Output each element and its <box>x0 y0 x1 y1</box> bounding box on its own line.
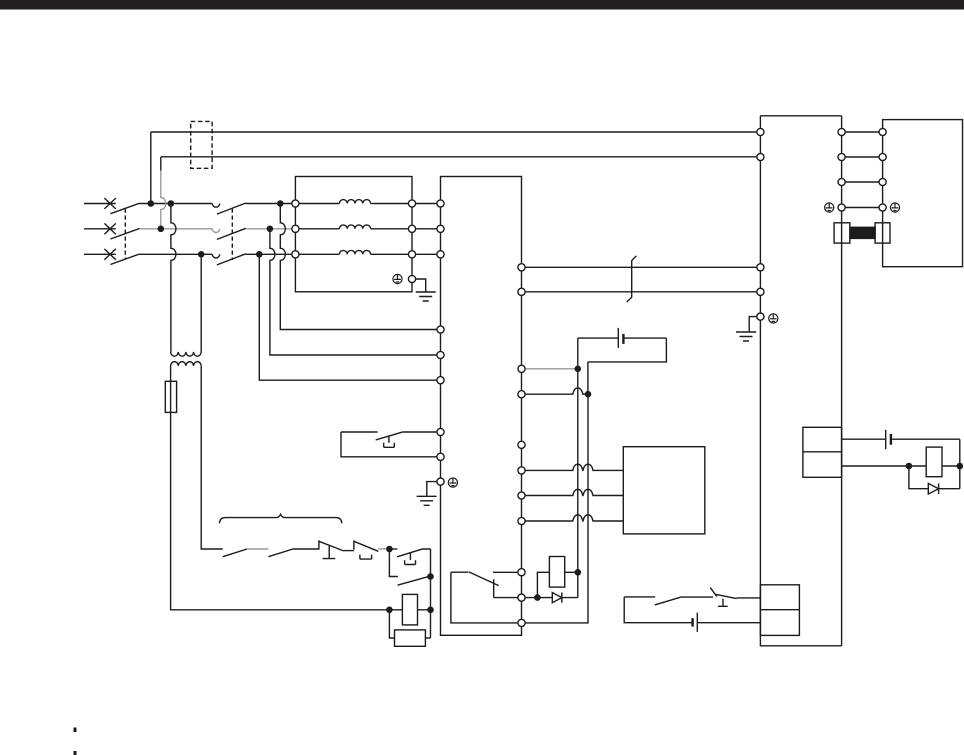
junction node phase S terminal tap <box>267 226 274 233</box>
junction node bus A <box>575 366 582 373</box>
tap wire phase T to transformer <box>200 254 202 352</box>
noise filter box <box>295 177 412 292</box>
shield clamp left <box>834 223 850 243</box>
junction node coil K2 left <box>534 594 541 601</box>
earth terminal symbol (filter) <box>393 274 402 283</box>
wire <box>293 548 319 550</box>
wire node to relay <box>430 577 432 610</box>
operation switch loop at inverter left <box>341 432 437 457</box>
interlock switch 1 <box>223 549 247 557</box>
motor cable rung 2 <box>842 156 883 158</box>
flywheel diode D1 <box>537 593 577 603</box>
terminal circles unit left <box>757 128 764 135</box>
unit earth ground <box>736 332 756 341</box>
external battery B3 <box>842 430 960 466</box>
junction node interlock chain <box>386 546 393 553</box>
wire inverter to unit line 2 <box>522 291 761 293</box>
wire to brake unit 2 (hops) <box>522 489 624 495</box>
unit ground wire <box>749 317 757 332</box>
junction node coil K3 left <box>906 463 913 470</box>
top control line 2 <box>161 156 761 158</box>
motor cable rung 3 <box>842 181 883 183</box>
tap wire phase T to terminal <box>259 254 440 380</box>
earth terminal symbol (cable right) <box>890 203 899 212</box>
bus wire down B <box>525 394 588 623</box>
page header bar <box>0 0 964 10</box>
connector block upper <box>803 427 842 477</box>
wire to brake unit 1 (hops) <box>522 464 624 470</box>
contactor mechanical link (dashed) <box>231 209 233 261</box>
earth terminal symbol (inverter) <box>448 478 457 487</box>
wire phase R input <box>84 203 116 205</box>
riser wire to top line 2 (gray, hop over phase R) <box>161 171 166 229</box>
riser wire to top line 2 <box>160 157 162 171</box>
interlock switch 2 <box>268 549 293 557</box>
wire (gray) <box>247 548 268 550</box>
control transformer primary <box>171 352 202 356</box>
breaker pole phase R <box>110 203 212 214</box>
terminal circles filter right <box>408 200 415 207</box>
interlock brace <box>220 514 342 523</box>
junction node phase T terminal tap <box>256 251 263 258</box>
terminal circles unit right <box>838 128 845 135</box>
brake relay coil K3 <box>926 447 942 477</box>
filter choke coil 2 <box>299 225 408 229</box>
contactor pole phase S <box>212 229 219 233</box>
fuse mark phase T <box>104 249 115 260</box>
wire filter to inverter T <box>416 253 437 255</box>
wire terminal to node (gray) <box>522 368 578 370</box>
wire filter to inverter R <box>416 203 437 205</box>
junction node phase S riser <box>158 226 165 233</box>
junction node phase T transformer tap <box>198 251 205 258</box>
brake unit box <box>623 447 705 534</box>
interlock switch 3 (NC with actuator) <box>319 540 344 558</box>
terminal circles motor <box>879 128 886 135</box>
tap wire phase S to terminal <box>270 229 441 355</box>
wire transformer secondary right down <box>201 366 223 549</box>
earth terminal symbol (cable left) <box>825 203 834 212</box>
wire terminal to node (hop) <box>522 388 589 394</box>
dashed option box <box>191 121 212 168</box>
breaker pole phase S <box>110 229 139 240</box>
wire inverter to unit line 1 <box>522 266 761 268</box>
junction node phase R terminal tap <box>277 200 284 207</box>
top control line 1 <box>151 131 761 133</box>
filter choke coil 3 <box>299 250 408 254</box>
inverter ground wire <box>427 482 437 496</box>
filter choke coil 1 <box>299 200 408 204</box>
terminal circles filter left <box>292 200 299 207</box>
junction node coil K3 right <box>957 463 964 470</box>
latch switch 5 <box>397 549 430 577</box>
breaker pole phase T <box>110 254 212 265</box>
bullet 2 <box>74 751 77 755</box>
battery B1 loop <box>578 328 667 394</box>
fuse mark phase R <box>104 198 115 209</box>
junction node coil K1 left <box>386 607 393 614</box>
junction node phase R tap <box>168 200 175 207</box>
relay coil K1 <box>389 609 430 611</box>
inverter earth ground <box>417 496 437 505</box>
tap wire phase R down (hops S,T) <box>171 204 176 352</box>
inverter box <box>441 177 522 636</box>
wire filter to inverter S <box>416 228 437 230</box>
terminal circles inverter right <box>518 264 525 271</box>
emergency stop circuit <box>624 588 760 607</box>
wire phase T input <box>84 253 116 255</box>
junction node switch 6 <box>427 573 434 580</box>
fault relay coil K2 <box>525 572 578 597</box>
servo unit box <box>760 116 841 646</box>
wire phase S to filter (gray) <box>246 228 296 230</box>
control transformer secondary <box>171 362 202 366</box>
earth terminal symbol (unit) <box>769 314 778 323</box>
motor box <box>883 120 963 267</box>
cable marker <box>627 256 637 302</box>
bus wire down A <box>577 338 579 597</box>
wire phase S input <box>84 228 116 230</box>
junction node bus B <box>585 391 592 398</box>
junction node phase R riser <box>148 200 155 207</box>
node J1 <box>389 548 397 550</box>
fuse mark phase S <box>104 223 115 234</box>
wire phase S (gray) <box>140 228 213 230</box>
contactor pole phase T <box>212 254 295 265</box>
contactor pole phase R <box>212 203 295 214</box>
resistor parallel <box>389 610 430 638</box>
brake coil wire <box>842 465 960 467</box>
filter earth ground <box>416 292 436 301</box>
motor cable rung 1 <box>842 131 883 133</box>
shield clamp right <box>875 223 890 243</box>
junction node coil K2 right <box>575 569 582 576</box>
tap wire phase R to terminal <box>280 204 440 330</box>
fault relay contact <box>451 572 518 623</box>
switch 6 <box>389 549 429 585</box>
wire transformer secondary left down <box>171 366 390 610</box>
connector block lower <box>760 585 799 636</box>
bullet 1 <box>74 728 77 733</box>
wire (gray) <box>378 548 386 550</box>
motor cable rung 4 (earth) <box>842 207 883 209</box>
flywheel diode D2 <box>909 466 960 494</box>
wire <box>344 550 354 552</box>
breaker mechanical link (dashed) <box>124 209 126 260</box>
interlock switch 4 (NC with latch) <box>354 540 378 559</box>
wire to brake unit 3 (hops) <box>522 515 624 521</box>
terminal circles inverter left <box>437 200 444 207</box>
shield bond bar <box>850 227 875 238</box>
fuse F1 <box>165 381 176 412</box>
filter ground wire <box>416 279 426 292</box>
battery B2 <box>624 597 760 632</box>
riser wire to top line 1 <box>150 132 152 204</box>
junction node coil K1 right <box>427 607 434 614</box>
